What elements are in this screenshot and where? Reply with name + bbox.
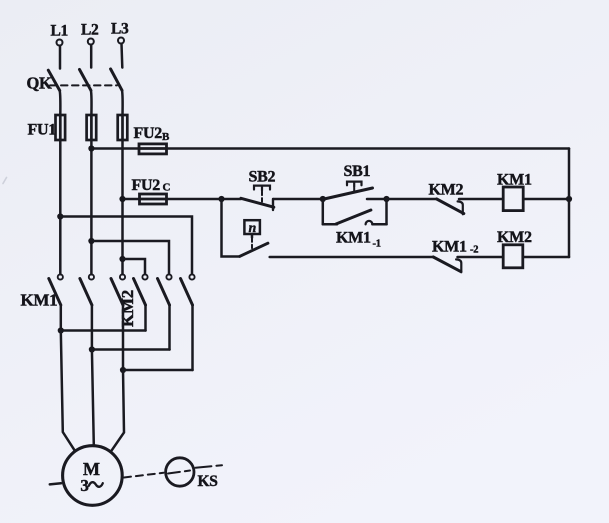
svg-text:B: B bbox=[162, 131, 170, 143]
pushbutton SB1 actuator dashed stem bbox=[353, 188, 355, 193]
contact KM2 fixed hook bbox=[458, 201, 463, 214]
node L3 lower junction bbox=[120, 367, 126, 373]
wire crossover L1 to contact6 bbox=[60, 217, 192, 275]
wire motor lead U bbox=[61, 331, 75, 451]
svg-text:KM1: KM1 bbox=[21, 291, 58, 310]
terminal L2 bbox=[88, 39, 94, 45]
QK linkage dashed bbox=[50, 84, 117, 86]
svg-text:KM2: KM2 bbox=[497, 229, 532, 246]
wire L3 top bbox=[120, 44, 123, 68]
switch QK pole 2 blade bbox=[80, 70, 91, 91]
contact KS blade (NO) bbox=[240, 243, 268, 256]
wire lower link contact5 bbox=[92, 348, 170, 351]
label FU2 B bbox=[134, 125, 171, 143]
contact KM1-1 right vertical bbox=[385, 199, 388, 224]
wire KM2 coil to right rail bbox=[523, 256, 569, 259]
svg-text:L1: L1 bbox=[51, 23, 69, 40]
pushbutton SB2 actuator bbox=[254, 186, 270, 191]
wire KM1-2 to KM2 coil bbox=[458, 256, 504, 259]
fuse FU1 pole 3 bbox=[118, 115, 128, 140]
contact KM1-2 blade (NC) bbox=[433, 257, 461, 272]
contact KM1-1 blade (NO) bbox=[336, 210, 371, 224]
svg-text:FU1: FU1 bbox=[28, 122, 57, 139]
wire motor lead W bbox=[112, 370, 124, 450]
node A row1/row2 branch bbox=[218, 196, 224, 202]
node L1 crossover bbox=[57, 213, 63, 219]
contact KM2 pole3 terminal bbox=[189, 274, 194, 279]
contact KM2 blade (NC) bbox=[437, 199, 464, 214]
contact KM1 pole1 lower wire bbox=[60, 305, 63, 331]
tilde of 3~ bbox=[89, 482, 103, 487]
wire KM2 contact to KM1 coil bbox=[459, 198, 503, 201]
terminal L1 bbox=[57, 40, 63, 46]
contact KM2 pole2 lower wire bbox=[168, 305, 171, 350]
pushbutton SB2 actuator dashed stem bbox=[261, 192, 263, 203]
fuse FU2B bbox=[139, 144, 167, 154]
node L1 lower junction bbox=[58, 327, 64, 333]
node D right rail junction bbox=[566, 196, 572, 202]
wire node A down to row2 bbox=[222, 199, 240, 257]
switch QK pole 3 blade bbox=[111, 69, 122, 90]
label KM1-2 bbox=[432, 239, 478, 256]
label FU2 C bbox=[132, 177, 171, 194]
contact KM2 pole1 terminal bbox=[142, 274, 147, 279]
contact KM2 pole1 blade bbox=[134, 279, 146, 306]
contact KM1-2 fixed hook bbox=[456, 259, 461, 272]
wire node C to KM2 contact bbox=[387, 198, 437, 201]
wire crossover L3 to contact4 bbox=[123, 259, 146, 274]
svg-text:KM1: KM1 bbox=[432, 239, 467, 256]
node B SB1 left bbox=[320, 196, 326, 202]
KS box stem bbox=[251, 234, 254, 238]
speed relay KS box bbox=[244, 220, 260, 234]
page artifact smudge bbox=[3, 178, 7, 184]
node L3-FU2C junction bbox=[119, 196, 125, 202]
pushbutton SB1 blade (NO) bbox=[324, 188, 372, 199]
pushbutton SB1 actuator bbox=[347, 182, 362, 187]
wire FU2B left bbox=[91, 147, 139, 150]
wire L2 QK to fuse bbox=[90, 90, 93, 115]
svg-text:FU2: FU2 bbox=[132, 177, 161, 194]
fuse FU1 pole 1 bbox=[56, 115, 66, 140]
wire motor lead V bbox=[92, 350, 94, 446]
pushbutton SB2 blade (NC) bbox=[241, 198, 274, 207]
svg-text:FU2: FU2 bbox=[134, 125, 163, 142]
svg-text:SB1: SB1 bbox=[344, 163, 371, 180]
svg-text:KS: KS bbox=[198, 473, 218, 490]
contact KM2 pole1 lower wire bbox=[144, 305, 147, 331]
svg-text:C: C bbox=[163, 181, 171, 193]
wire L2 vertical fuse to contact bbox=[90, 140, 93, 274]
node L2-FU2B junction bbox=[88, 145, 94, 151]
svg-text:-2: -2 bbox=[470, 245, 478, 256]
wire FU2C to node A bbox=[166, 198, 241, 201]
wire L1 vertical fuse to contact bbox=[59, 140, 62, 274]
motor M bbox=[63, 446, 123, 506]
contact KM1-1 rail bbox=[323, 223, 387, 226]
wire L2 top bbox=[90, 45, 93, 68]
KS right shaft dash bbox=[196, 465, 223, 468]
KS inner shaft dash bbox=[168, 471, 190, 474]
wire SB2 to node B bbox=[274, 198, 325, 201]
contact KM1 pole3 lower wire bbox=[122, 305, 125, 370]
svg-text:KM2: KM2 bbox=[429, 182, 464, 199]
motor left shaft dash bbox=[50, 483, 61, 484]
svg-text:QK: QK bbox=[27, 74, 53, 93]
wire FU2C left bbox=[123, 198, 141, 201]
node L2 lower junction bbox=[89, 346, 95, 352]
svg-text:-1: -1 bbox=[373, 239, 381, 250]
coil KM1 bbox=[503, 187, 523, 211]
wire KM1 coil to right rail bbox=[523, 198, 569, 201]
svg-text:L3: L3 bbox=[111, 21, 129, 38]
contact KM2 pole3 lower wire bbox=[191, 305, 194, 370]
svg-text:3: 3 bbox=[80, 476, 88, 495]
switch QK pole 1 blade bbox=[48, 70, 59, 90]
wire SB1 right terminal bbox=[367, 198, 387, 201]
contact KM1-1 branch left vertical bbox=[322, 199, 325, 224]
wire lower link contact4 bbox=[61, 329, 146, 332]
contact KM1 pole1 terminal bbox=[58, 274, 63, 279]
motor-KS shaft dashed bbox=[124, 473, 164, 478]
contact KM1 pole2 terminal bbox=[89, 274, 94, 279]
contact KM1 pole3 terminal bbox=[120, 274, 125, 279]
speed relay KS rotor bbox=[166, 458, 194, 486]
pushbutton SB2 fixed tick bbox=[272, 199, 274, 210]
wire L1 QK to fuse bbox=[58, 91, 61, 116]
coil KM2 bbox=[503, 245, 523, 268]
wire L3 QK to fuse bbox=[121, 90, 124, 115]
contact KM2 pole2 blade bbox=[158, 279, 170, 306]
label KM1-1 bbox=[336, 230, 381, 250]
svg-text:KM1: KM1 bbox=[336, 230, 371, 247]
svg-text:L2: L2 bbox=[81, 22, 99, 39]
contact KM1-1 fixed arc bbox=[366, 221, 373, 224]
node L2 crossover bbox=[88, 238, 94, 244]
wire L1 top bbox=[59, 46, 62, 69]
wire FU2B to right rail bbox=[166, 147, 569, 150]
contact KM1 pole2 blade bbox=[80, 279, 92, 306]
svg-text:SB2: SB2 bbox=[249, 169, 276, 186]
wire right rail vertical bbox=[568, 149, 571, 258]
contact KM2 pole3 blade bbox=[181, 279, 193, 306]
contact KM1 pole2 lower wire bbox=[91, 305, 94, 350]
fuse FU2C bbox=[140, 194, 167, 204]
wire crossover L2 to contact5 bbox=[91, 241, 169, 274]
wire KS contact to KM1-2 bbox=[270, 256, 434, 259]
contact KM1 pole1 blade bbox=[49, 279, 61, 306]
KS contact dashed link bbox=[251, 239, 253, 251]
contact KM2 pole2 terminal bbox=[166, 274, 171, 279]
node L3 crossover bbox=[119, 256, 125, 262]
svg-text:KM2: KM2 bbox=[118, 290, 137, 327]
wire lower link contact6 bbox=[123, 369, 193, 372]
fuse FU1 pole 2 bbox=[87, 115, 97, 140]
contact KM1 pole3 blade bbox=[111, 279, 123, 306]
node C SB1 right bbox=[383, 196, 389, 202]
wire L3 vertical fuse to contact bbox=[121, 140, 124, 274]
terminal L3 bbox=[118, 38, 124, 44]
